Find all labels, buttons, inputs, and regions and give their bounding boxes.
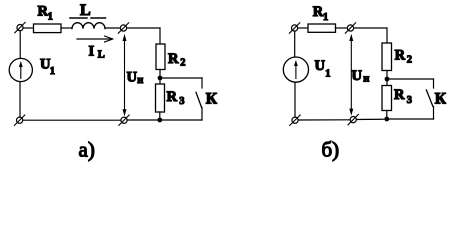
terminal X1 (top-left, circuit a) (15, 22, 25, 32)
wire: R3b to node D (386, 111, 388, 120)
label IL (89, 43, 105, 60)
voltage arrow Un (double-headed, circuit b) (349, 34, 353, 116)
wire: R1 to inductor L (61, 27, 72, 29)
svg-text:н: н (363, 73, 369, 84)
wire: R2b to node C (386, 71, 388, 86)
wire: terminal X2 to node A corner (127, 27, 160, 29)
resistor R2 (156, 44, 165, 70)
terminal X2 (top-middle, circuit a) (118, 23, 128, 33)
svg-text:R: R (395, 48, 406, 64)
label R2 (168, 51, 186, 69)
wire: node C to switch Kb (387, 78, 434, 80)
source U1 (circle, circuit b) (283, 57, 308, 82)
inductor L (72, 23, 105, 29)
resistor R3 (circuit b) (382, 86, 392, 111)
resistor R3 (156, 84, 165, 112)
resistor R2 (circuit b) (382, 43, 392, 71)
switch K (open blade) (196, 78, 202, 120)
wire: terminal X6 to corner of R2 branch (354, 27, 387, 29)
svg-text:I: I (89, 43, 95, 59)
wire: terminal X8 to terminal X7 (298, 119, 350, 121)
terminal X4 (bottom-middle, circuit a) (119, 115, 129, 125)
svg-text:R: R (394, 87, 405, 103)
label Un (127, 70, 144, 86)
wire: corner down to resistor R2b (386, 28, 388, 43)
svg-text:К: К (206, 90, 218, 107)
current arrow IL (77, 36, 113, 42)
svg-text:1: 1 (325, 69, 330, 80)
wire: terminal X5 to resistor R1b (298, 27, 308, 29)
svg-text:2: 2 (180, 58, 185, 69)
source U1 arrow (19, 61, 23, 79)
wire: corner down to resistor R2 (159, 28, 161, 44)
svg-text:1: 1 (48, 12, 53, 23)
svg-text:2: 2 (407, 55, 412, 66)
wire: switch K to node B (bottom) (162, 119, 202, 121)
node C (junction dot between R2 and R3, circuit b) (385, 77, 390, 82)
wire: R2 to node A (159, 70, 161, 85)
wire: terminal X1 to resistor R1 (23, 27, 34, 29)
wire: R3 to node B (159, 112, 161, 120)
svg-text:R: R (167, 89, 178, 105)
node A (junction dot between R2 and R3) (158, 76, 163, 81)
resistor R1 (circuit b) (308, 24, 336, 32)
svg-text:н: н (137, 75, 143, 86)
source U1 arrow (circuit b) (294, 60, 298, 79)
source U1 (circle) (9, 58, 32, 81)
label U1 (circuit b) (315, 58, 331, 80)
label R1 (circuit b) (313, 4, 328, 23)
switch K (circuit b, open blade) (426, 79, 433, 119)
svg-text:L: L (98, 50, 105, 61)
svg-text:К: К (435, 91, 447, 108)
svg-text:R: R (168, 51, 179, 67)
label R1 (38, 4, 53, 23)
label U1 (40, 56, 55, 77)
terminal X7 (bottom-left, circuit b) (290, 115, 300, 125)
wire: switch Kb to node D (bottom) (389, 118, 434, 120)
wire: source U1 down to terminal X3 (19, 82, 21, 118)
wire: node A to switch K (160, 77, 202, 79)
voltage arrow Un (double-headed, circuit a) (123, 34, 127, 117)
wire: node B to terminal X4 (127, 119, 157, 121)
svg-text:3: 3 (179, 96, 184, 107)
terminal X8 (bottom-middle, circuit b) (348, 114, 358, 124)
label R3 (circuit b) (394, 87, 412, 106)
svg-text:1: 1 (50, 66, 55, 77)
label R3 (167, 89, 185, 107)
svg-text:1: 1 (323, 12, 328, 23)
terminal X6 (top-middle, circuit b) (345, 23, 355, 33)
inductor L core (dashed bar) (70, 17, 106, 19)
label R2 (circuit b) (395, 48, 412, 66)
svg-text:а): а) (79, 138, 95, 162)
terminal X5 (top-left, circuit b) (289, 23, 299, 33)
wire: inductor L to terminal X2 (105, 27, 120, 29)
svg-text:U: U (127, 70, 138, 86)
resistor R1 (34, 24, 62, 33)
wire: terminal X5 down to source U1b (294, 31, 296, 57)
node D (junction dot on bottom wire, circuit b) (384, 117, 389, 122)
svg-text:U: U (315, 58, 326, 74)
node B (junction dot on bottom wire) (157, 118, 162, 123)
label Un (circuit b) (352, 68, 370, 84)
svg-text:U: U (352, 68, 363, 84)
svg-text:L: L (80, 2, 91, 19)
wire: source U1b down to terminal X7 (294, 82, 296, 117)
wire: node D to terminal X8 (356, 118, 384, 120)
svg-text:3: 3 (407, 95, 412, 106)
wire: terminal X1 down to source U1 (19, 31, 21, 59)
svg-text:б): б) (322, 138, 340, 162)
wire: R1b to terminal X6 (336, 27, 348, 29)
wire: terminal X4 to terminal X3 (23, 119, 121, 121)
terminal X3 (bottom-left, circuit a) (14, 115, 24, 125)
